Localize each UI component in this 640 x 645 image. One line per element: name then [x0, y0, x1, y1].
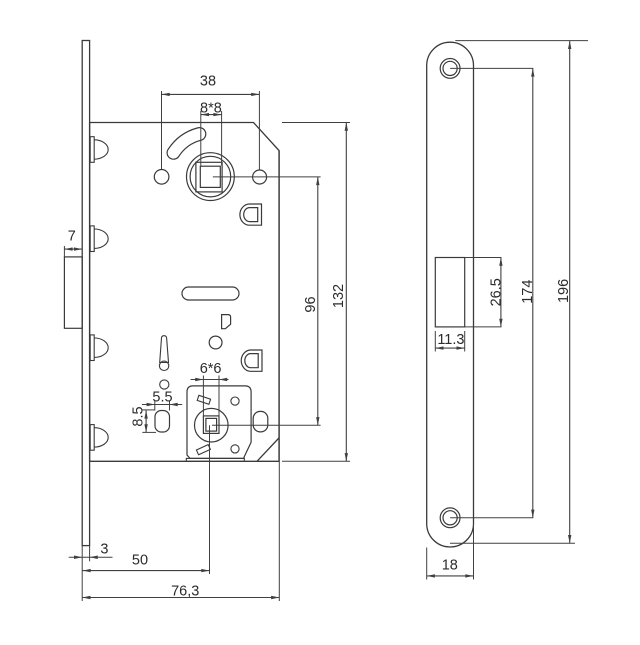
- svg-text:38: 38: [200, 74, 216, 90]
- svg-text:50: 50: [132, 552, 148, 568]
- svg-text:174: 174: [520, 280, 536, 304]
- svg-text:7: 7: [68, 229, 76, 245]
- svg-text:8.5: 8.5: [131, 406, 147, 426]
- svg-text:132: 132: [331, 284, 347, 308]
- svg-text:8*8: 8*8: [200, 100, 222, 116]
- svg-text:96: 96: [303, 296, 319, 312]
- svg-text:5.5: 5.5: [152, 390, 172, 406]
- svg-text:3: 3: [100, 541, 108, 557]
- svg-text:196: 196: [556, 279, 572, 303]
- svg-text:6*6: 6*6: [200, 361, 222, 377]
- svg-text:11.3: 11.3: [437, 332, 464, 348]
- svg-text:18: 18: [442, 557, 458, 573]
- svg-text:26.5: 26.5: [488, 278, 504, 306]
- svg-text:76,3: 76,3: [171, 583, 199, 599]
